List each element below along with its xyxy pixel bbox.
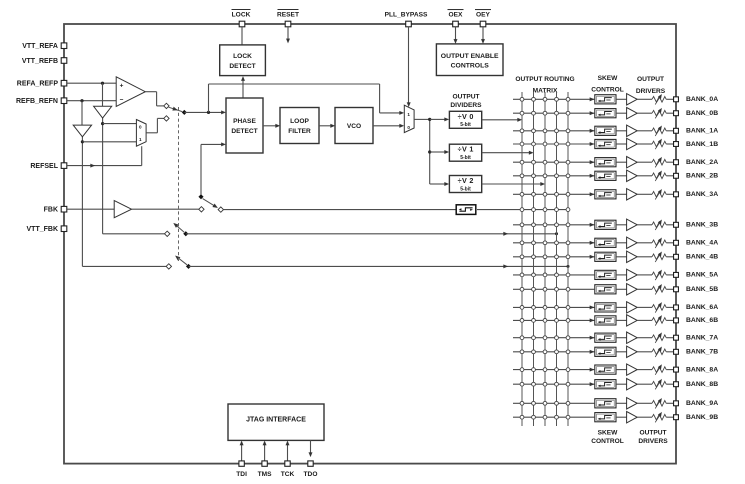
wire skew to driver BANK_2B bbox=[616, 175, 627, 177]
switch S1 reference bypass select bbox=[164, 103, 187, 121]
block JTAG INTERFACE bbox=[228, 404, 324, 440]
svg-text:BANK_2B: BANK_2B bbox=[686, 173, 718, 180]
wire OEX arrow into output enable controls bbox=[454, 27, 458, 44]
svg-text:BANK_8B: BANK_8B bbox=[686, 381, 718, 388]
port BANK_6A with label bbox=[674, 304, 719, 311]
svg-text:FILTER: FILTER bbox=[288, 128, 311, 135]
wire skew to driver BANK_2A bbox=[616, 161, 627, 163]
svg-text:BANK_7B: BANK_7B bbox=[686, 349, 718, 356]
wire skew to driver BANK_3B bbox=[616, 224, 627, 226]
buffer D2 (down triangle on REFB branch) bbox=[73, 125, 91, 137]
port OEX with overline label bbox=[448, 10, 464, 27]
wire skew to driver BANK_0A bbox=[616, 98, 627, 100]
wire REFB termination row to switch S4 bbox=[82, 265, 165, 267]
wire resistor to port BANK_8B bbox=[666, 383, 673, 385]
svg-text:BANK_7A: BANK_7A bbox=[686, 335, 718, 342]
programmable output resistor BANK_8A bbox=[652, 364, 666, 374]
svg-text:DRIVERS: DRIVERS bbox=[638, 438, 668, 445]
port BANK_0A with label bbox=[674, 96, 719, 103]
wire switch S2 up to phase detector fb input bbox=[201, 143, 226, 195]
wire REFA buffer to refsel mux input 0 bbox=[101, 122, 136, 125]
port VTT_REFB with label bbox=[22, 58, 67, 65]
wire PLL_BYPASS down to mux select bbox=[407, 27, 411, 107]
svg-text:JTAG INTERFACE: JTAG INTERFACE bbox=[246, 417, 306, 424]
skew control block BANK_8B bbox=[595, 380, 616, 389]
block VCO bbox=[335, 108, 373, 144]
wire driver to output resistor BANK_1B bbox=[637, 143, 652, 145]
svg-text:5-bit: 5-bit bbox=[460, 186, 471, 192]
op-amp U1 reference comparator bbox=[116, 77, 145, 107]
output driver buffer BANK_1A bbox=[627, 125, 638, 136]
wire matrix row to skew control BANK_1A bbox=[513, 129, 594, 133]
skew control block BANK_4B bbox=[595, 252, 616, 261]
buffer D1 (down triangle on REFA branch) bbox=[94, 106, 112, 118]
svg-text:LOCK: LOCK bbox=[233, 53, 252, 60]
output driver buffer BANK_6B bbox=[627, 315, 638, 326]
wire driver to output resistor BANK_3B bbox=[637, 224, 652, 226]
block LOOP FILTER bbox=[280, 108, 319, 144]
port BANK_0B with label bbox=[674, 110, 719, 117]
wire TMS to jtag interface bbox=[263, 441, 267, 461]
wire driver to output resistor BANK_3A bbox=[637, 193, 652, 195]
wire skew to driver BANK_0B bbox=[616, 112, 627, 114]
output routing matrix column bus lines bbox=[522, 92, 568, 426]
programmable output resistor BANK_5B bbox=[652, 284, 666, 294]
wire resistor to port BANK_0B bbox=[666, 112, 673, 114]
svg-text:DRIVERS: DRIVERS bbox=[636, 88, 666, 95]
wire skew to driver BANK_8A bbox=[616, 369, 627, 371]
wire matrix row to skew control BANK_5B bbox=[513, 287, 594, 291]
wire resistor to port BANK_3B bbox=[666, 224, 673, 226]
wire OEY arrow into output enable controls bbox=[481, 27, 485, 44]
svg-text:TDO: TDO bbox=[304, 471, 318, 478]
svg-text:BANK_5B: BANK_5B bbox=[686, 286, 718, 293]
wire driver to output resistor BANK_7A bbox=[637, 337, 652, 339]
svg-text:BANK_9A: BANK_9A bbox=[686, 400, 718, 407]
wire switch S3 into matrix column 4 bbox=[186, 232, 558, 236]
wire resistor to port BANK_0A bbox=[666, 98, 673, 100]
wire skew to driver BANK_4A bbox=[616, 242, 627, 244]
wire into divider V2 bbox=[430, 182, 449, 186]
wire resistor to port BANK_6B bbox=[666, 319, 673, 321]
svg-text:BANK_1A: BANK_1A bbox=[686, 128, 718, 135]
wire resistor to port BANK_6A bbox=[666, 306, 673, 308]
skew control block BANK_3A bbox=[595, 190, 616, 199]
svg-text:REFSEL: REFSEL bbox=[30, 163, 58, 170]
wire matrix row to skew control BANK_8B bbox=[513, 382, 594, 386]
programmable output resistor BANK_9A bbox=[652, 398, 666, 408]
svg-text:0: 0 bbox=[139, 124, 142, 129]
skew control block BANK_9A bbox=[595, 399, 616, 408]
port BANK_8A with label bbox=[674, 366, 719, 373]
skew control block BANK_2A bbox=[595, 158, 616, 167]
skew control block on feedback path bbox=[456, 205, 476, 215]
wire resistor to port BANK_7A bbox=[666, 337, 673, 339]
wire skew to driver BANK_3A bbox=[616, 193, 627, 195]
wire driver to output resistor BANK_4B bbox=[637, 256, 652, 258]
svg-text:VTT_REFA: VTT_REFA bbox=[22, 43, 58, 50]
wire resistor to port BANK_1B bbox=[666, 143, 673, 145]
svg-text:BANK_0B: BANK_0B bbox=[686, 110, 718, 117]
port BANK_7B with label bbox=[674, 349, 719, 356]
wire mux M1 output to divider bus bbox=[414, 118, 431, 184]
skew control block BANK_5B bbox=[595, 285, 616, 294]
wire skew to driver BANK_7A bbox=[616, 337, 627, 339]
wire switch S4 into matrix column 5 bbox=[189, 265, 570, 269]
port TMS with label bbox=[258, 461, 273, 478]
wire TCK to jtag interface bbox=[286, 441, 290, 461]
wire skew to driver BANK_5A bbox=[616, 274, 627, 276]
wire matrix row to skew control BANK_3A bbox=[513, 192, 594, 196]
port VTT_REFA with label bbox=[22, 43, 67, 50]
wire RESET arrow into chip bbox=[286, 27, 290, 43]
wire skew to driver BANK_4B bbox=[616, 256, 627, 258]
svg-text:PLL_BYPASS: PLL_BYPASS bbox=[385, 12, 428, 19]
output driver buffer BANK_9B bbox=[627, 412, 638, 423]
output driver buffer BANK_9A bbox=[627, 398, 638, 409]
port BANK_2B with label bbox=[674, 173, 719, 180]
port BANK_4B with label bbox=[674, 254, 719, 261]
svg-text:BANK_3B: BANK_3B bbox=[686, 222, 718, 229]
wire resistor to port BANK_9A bbox=[666, 402, 673, 404]
wire matrix row to skew control BANK_7A bbox=[513, 336, 594, 340]
wire FBK input to feedback buffer bbox=[67, 208, 114, 210]
wire matrix row to skew control BANK_0A bbox=[513, 97, 594, 101]
block PHASE DETECT bbox=[226, 98, 263, 153]
svg-text:TDI: TDI bbox=[236, 471, 247, 478]
skew control block BANK_7B bbox=[595, 347, 616, 356]
output driver buffer BANK_5B bbox=[627, 284, 638, 295]
port REFA_REFP with label bbox=[17, 80, 67, 87]
svg-text:TMS: TMS bbox=[258, 471, 273, 478]
programmable output resistor BANK_7A bbox=[652, 333, 666, 343]
output driver buffer BANK_3B bbox=[627, 219, 638, 230]
skew control block BANK_6A bbox=[595, 303, 616, 312]
port BANK_8B with label bbox=[674, 381, 719, 388]
svg-text:VCO: VCO bbox=[347, 123, 361, 130]
svg-text:5-bit: 5-bit bbox=[460, 122, 471, 128]
svg-text:BANK_3A: BANK_3A bbox=[686, 191, 718, 198]
wire VCO to pll-bypass mux input 0 bbox=[373, 124, 404, 128]
wire driver to output resistor BANK_9B bbox=[637, 416, 652, 418]
skew control block BANK_4A bbox=[595, 238, 616, 247]
wire REFB_REFN to comparator - input bbox=[67, 99, 116, 102]
svg-text:BANK_0A: BANK_0A bbox=[686, 96, 718, 103]
wire matrix row to skew control BANK_9A bbox=[513, 401, 594, 405]
svg-text:+: + bbox=[120, 82, 124, 89]
port BANK_9A with label bbox=[674, 400, 719, 407]
wire matrix row to skew control BANK_4A bbox=[513, 241, 594, 245]
switch S2 feedback select to phase detector bbox=[199, 194, 224, 212]
programmable output resistor BANK_4A bbox=[652, 238, 666, 248]
svg-text:OUTPUT: OUTPUT bbox=[452, 93, 479, 100]
svg-text:PHASE: PHASE bbox=[233, 118, 256, 125]
wire driver to output resistor BANK_5B bbox=[637, 288, 652, 290]
wire resistor to port BANK_2A bbox=[666, 161, 673, 163]
programmable output resistor BANK_1A bbox=[652, 126, 666, 136]
programmable output resistor BANK_0B bbox=[652, 108, 666, 118]
port BANK_6B with label bbox=[674, 317, 719, 324]
wire ref signal up and over to pll-bypass mux input 1 bbox=[209, 84, 405, 115]
wire skew to driver BANK_6B bbox=[616, 319, 627, 321]
wire resistor to port BANK_4B bbox=[666, 256, 673, 258]
wire switch S1 to phase detector ref input bbox=[184, 111, 226, 115]
wire resistor to port BANK_4A bbox=[666, 242, 673, 244]
label OUTPUT DRIVERS heading top bbox=[636, 76, 666, 95]
output driver buffer BANK_8B bbox=[627, 379, 638, 390]
wire driver to output resistor BANK_6B bbox=[637, 319, 652, 321]
svg-text:CONTROL: CONTROL bbox=[591, 87, 624, 94]
label OUTPUT ROUTING MATRIX heading bbox=[515, 76, 574, 95]
output driver buffer BANK_0B bbox=[627, 108, 638, 119]
programmable output resistor BANK_0A bbox=[652, 94, 666, 104]
output driver buffer BANK_2B bbox=[627, 170, 638, 181]
wire skew to driver BANK_1B bbox=[616, 143, 627, 145]
port BANK_2A with label bbox=[674, 159, 719, 166]
programmable output resistor BANK_4B bbox=[652, 252, 666, 262]
svg-text:BANK_4A: BANK_4A bbox=[686, 240, 718, 247]
wire matrix row to skew control BANK_7B bbox=[513, 350, 594, 354]
programmable output resistor BANK_8B bbox=[652, 379, 666, 389]
svg-text:1: 1 bbox=[139, 137, 142, 142]
svg-text:TCK: TCK bbox=[281, 471, 295, 478]
svg-text:−: − bbox=[120, 97, 124, 104]
svg-text:OEY: OEY bbox=[476, 12, 491, 19]
skew control block BANK_7A bbox=[595, 333, 616, 342]
svg-text:FBK: FBK bbox=[44, 207, 58, 214]
wire REFA termination row to switch S3 bbox=[103, 233, 165, 235]
wire internal feedback to skew block bbox=[224, 209, 456, 211]
wire REFB buffer to refsel mux input 1 bbox=[81, 140, 137, 143]
output driver buffer BANK_8A bbox=[627, 364, 638, 375]
port REFB_REFN with label bbox=[16, 98, 67, 105]
port BANK_7A with label bbox=[674, 335, 719, 342]
svg-text:SKEW: SKEW bbox=[598, 75, 619, 82]
wire matrix row to skew control BANK_4B bbox=[513, 255, 594, 259]
svg-text:RESET: RESET bbox=[277, 12, 299, 19]
skew control block BANK_0B bbox=[595, 109, 616, 118]
svg-text:OUTPUT: OUTPUT bbox=[639, 430, 666, 437]
svg-text:DIVIDERS: DIVIDERS bbox=[450, 102, 482, 109]
wire driver to output resistor BANK_6A bbox=[637, 306, 652, 308]
divider V1 (5-bit) bbox=[449, 144, 481, 161]
wire comparator output to switch contact bbox=[145, 92, 163, 106]
label OUTPUT DIVIDERS heading bbox=[450, 93, 482, 109]
port VTT_FBK with label bbox=[27, 226, 67, 233]
block OUTPUT ENABLE CONTROLS bbox=[436, 44, 503, 76]
svg-text:SKEW: SKEW bbox=[598, 430, 619, 437]
wire skew to driver BANK_7B bbox=[616, 351, 627, 353]
wire skew to driver BANK_1A bbox=[616, 130, 627, 132]
wire driver to output resistor BANK_1A bbox=[637, 130, 652, 132]
svg-text:DETECT: DETECT bbox=[229, 63, 255, 70]
port BANK_3B with label bbox=[674, 222, 719, 229]
output driver buffer BANK_5A bbox=[627, 269, 638, 280]
wire feedback through matrix bbox=[477, 208, 570, 212]
wire resistor to port BANK_5B bbox=[666, 288, 673, 290]
skew control block BANK_6B bbox=[595, 316, 616, 325]
block LOCK DETECT bbox=[220, 45, 266, 76]
programmable output resistor BANK_1B bbox=[652, 139, 666, 149]
wire resistor to port BANK_9B bbox=[666, 416, 673, 418]
programmable output resistor BANK_6A bbox=[652, 302, 666, 312]
skew control block BANK_3B bbox=[595, 220, 616, 229]
wire driver to output resistor BANK_8B bbox=[637, 383, 652, 385]
port LOCK (active-low) with overline label bbox=[232, 10, 251, 27]
port BANK_5A with label bbox=[674, 272, 719, 279]
programmable output resistor BANK_9B bbox=[652, 412, 666, 422]
programmable output resistor BANK_2B bbox=[652, 171, 666, 181]
wire matrix row to skew control BANK_5A bbox=[513, 273, 594, 277]
programmable output resistor BANK_3B bbox=[652, 220, 666, 230]
port BANK_9B with label bbox=[674, 414, 719, 421]
programmable output resistor BANK_5A bbox=[652, 270, 666, 280]
svg-text:÷V 0: ÷V 0 bbox=[458, 112, 474, 121]
wire skew to driver BANK_5B bbox=[616, 288, 627, 290]
wire divider V1 output into matrix column 2 bbox=[482, 151, 534, 155]
skew control block BANK_1B bbox=[595, 139, 616, 148]
wire resistor to port BANK_1A bbox=[666, 130, 673, 132]
wire phase detect to loop filter bbox=[263, 124, 280, 128]
svg-text:LOOP: LOOP bbox=[290, 118, 309, 125]
wire skew to driver BANK_9B bbox=[616, 416, 627, 418]
svg-text:0: 0 bbox=[407, 125, 410, 130]
svg-text:BANK_6B: BANK_6B bbox=[686, 317, 718, 324]
wire TDI to jtag interface bbox=[240, 441, 244, 461]
port BANK_3A with label bbox=[674, 191, 719, 198]
chip outline border bbox=[64, 24, 676, 464]
svg-text:LOCK: LOCK bbox=[232, 12, 251, 19]
wire REFA_REFP to comparator + input bbox=[67, 82, 116, 85]
wire driver to output resistor BANK_2B bbox=[637, 175, 652, 177]
port TDI with label bbox=[236, 461, 247, 478]
svg-text:÷V 2: ÷V 2 bbox=[458, 176, 474, 185]
wire driver to output resistor BANK_7B bbox=[637, 351, 652, 353]
port REFSEL with label bbox=[30, 163, 66, 170]
port TCK with label bbox=[281, 461, 295, 478]
svg-text:OUTPUT: OUTPUT bbox=[637, 76, 664, 83]
wire driver to output resistor BANK_9A bbox=[637, 402, 652, 404]
wire into divider V1 bbox=[430, 150, 449, 154]
skew control block BANK_9B bbox=[595, 413, 616, 422]
output driver buffer BANK_4A bbox=[627, 237, 638, 248]
wire matrix row to skew control BANK_3B bbox=[513, 223, 594, 227]
svg-text:BANK_2A: BANK_2A bbox=[686, 159, 718, 166]
wire into divider V0 bbox=[430, 118, 449, 122]
switch S3 test clock select bbox=[165, 223, 189, 237]
wire mux M2 output to switch contact bbox=[146, 118, 164, 132]
programmable output resistor BANK_6B bbox=[652, 315, 666, 325]
wire LOCK port to lock detect bbox=[241, 27, 243, 45]
wire REFA branch down through buffer to switch row bbox=[102, 83, 104, 234]
svg-text:BANK_9B: BANK_9B bbox=[686, 414, 718, 421]
label OUTPUT DRIVERS heading bottom bbox=[638, 430, 668, 446]
svg-text:OUTPUT ENABLE: OUTPUT ENABLE bbox=[441, 53, 499, 60]
svg-text:VTT_FBK: VTT_FBK bbox=[27, 226, 59, 233]
svg-text:DETECT: DETECT bbox=[231, 128, 257, 135]
wire divider V2 output into matrix column 3 bbox=[482, 182, 545, 186]
programmable output resistor BANK_2A bbox=[652, 157, 666, 167]
label SKEW CONTROL heading top bbox=[591, 75, 624, 94]
skew control block BANK_5A bbox=[595, 270, 616, 279]
divider V0 (5-bit) bbox=[449, 111, 481, 128]
wire skew to driver BANK_8B bbox=[616, 383, 627, 385]
port PLL_BYPASS with label bbox=[385, 12, 428, 27]
wire skew to driver BANK_9A bbox=[616, 402, 627, 404]
wire matrix row to skew control BANK_8A bbox=[513, 368, 594, 372]
svg-text:BANK_5A: BANK_5A bbox=[686, 272, 718, 279]
skew control block BANK_8A bbox=[595, 365, 616, 374]
svg-text:÷V 1: ÷V 1 bbox=[458, 145, 474, 154]
output driver buffer BANK_7B bbox=[627, 346, 638, 357]
wire skew to driver BANK_6A bbox=[616, 306, 627, 308]
wire resistor to port BANK_7B bbox=[666, 351, 673, 353]
svg-text:CONTROLS: CONTROLS bbox=[451, 63, 490, 70]
svg-text:BANK_4B: BANK_4B bbox=[686, 254, 718, 261]
skew control block BANK_0A bbox=[595, 95, 616, 104]
output driver buffer BANK_6A bbox=[627, 302, 638, 313]
output driver buffer BANK_1B bbox=[627, 138, 638, 149]
wire TDO to jtag interface bbox=[309, 440, 313, 457]
test mode boundary dashed line bbox=[178, 107, 180, 261]
wire resistor to port BANK_2B bbox=[666, 175, 673, 177]
wire REFB branch down through buffer to switch row bbox=[81, 101, 83, 267]
port RESET (active-low) with overline label bbox=[277, 10, 299, 27]
wire divider V0 output into matrix column 1 bbox=[482, 118, 522, 122]
port OEY with overline label bbox=[475, 10, 491, 27]
wire resistor to port BANK_5A bbox=[666, 274, 673, 276]
port TDO with label bbox=[304, 461, 318, 478]
wire driver to output resistor BANK_8A bbox=[637, 369, 652, 371]
wire matrix row to skew control BANK_6A bbox=[513, 306, 594, 310]
svg-text:1: 1 bbox=[407, 112, 410, 117]
port BANK_4A with label bbox=[674, 240, 719, 247]
wire matrix row to skew control BANK_6B bbox=[513, 319, 594, 323]
skew control block BANK_1A bbox=[595, 126, 616, 135]
svg-text:REFA_REFP: REFA_REFP bbox=[17, 81, 59, 88]
output driver buffer BANK_2A bbox=[627, 157, 638, 168]
svg-text:5-bit: 5-bit bbox=[460, 155, 471, 161]
output driver buffer BANK_0A bbox=[627, 94, 638, 105]
port FBK with label bbox=[44, 206, 67, 213]
svg-text:CONTROL: CONTROL bbox=[591, 438, 624, 445]
switch S4 test clock select bbox=[166, 256, 191, 270]
wire feedback buffer to switch contact bbox=[132, 208, 199, 210]
wire resistor to port BANK_3A bbox=[666, 193, 673, 195]
svg-text:OEX: OEX bbox=[449, 12, 464, 19]
label SKEW CONTROL heading bottom bbox=[591, 430, 624, 446]
wire matrix row to skew control BANK_1B bbox=[513, 142, 594, 146]
port BANK_1A with label bbox=[674, 128, 719, 135]
wire phase detect up to lock detect bbox=[241, 76, 245, 98]
skew control block BANK_2B bbox=[595, 171, 616, 180]
wire loop filter to VCO bbox=[319, 124, 335, 128]
mux M2 reference select bbox=[136, 120, 146, 147]
svg-text:OUTPUT ROUTING: OUTPUT ROUTING bbox=[515, 76, 574, 83]
programmable output resistor BANK_3A bbox=[652, 189, 666, 199]
mux M1 pll bypass select bbox=[404, 105, 414, 132]
wire driver to output resistor BANK_0B bbox=[637, 112, 652, 114]
svg-text:BANK_8A: BANK_8A bbox=[686, 366, 718, 373]
programmable output resistor BANK_7B bbox=[652, 347, 666, 357]
port BANK_5B with label bbox=[674, 286, 719, 293]
wire matrix row to skew control BANK_2A bbox=[513, 160, 594, 164]
wire matrix row to skew control BANK_0B bbox=[513, 111, 594, 115]
svg-text:REFB_REFN: REFB_REFN bbox=[16, 98, 58, 105]
port BANK_1B with label bbox=[674, 141, 719, 148]
wire matrix row to skew control BANK_9B bbox=[513, 415, 594, 419]
output driver buffer BANK_7A bbox=[627, 332, 638, 343]
